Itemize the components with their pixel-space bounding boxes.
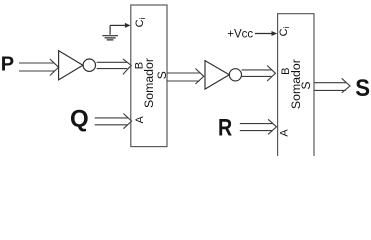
svg-text:Ci: Ci bbox=[278, 26, 291, 36]
adder block U2 (Somador 1) bbox=[131, 5, 167, 147]
wire from +Vcc to Somador2 pin Ci bbox=[255, 31, 277, 36]
svg-text:P: P bbox=[1, 54, 14, 76]
svg-text:A: A bbox=[134, 115, 146, 123]
svg-text:+Vcc: +Vcc bbox=[227, 28, 253, 40]
bus arrow from Q to Somador1 pin A bbox=[95, 114, 132, 129]
bus from Somador1 pin S to inverter U3 bbox=[167, 69, 204, 85]
svg-text:R: R bbox=[218, 114, 232, 141]
inverter U3 bbox=[205, 61, 241, 90]
inverter U1 bbox=[59, 51, 96, 80]
bus arrow from U3 to Somador2 pin B bbox=[242, 66, 276, 82]
bus arrow from U1 to Somador1 pin B bbox=[97, 59, 132, 75]
svg-text:Ci: Ci bbox=[134, 17, 147, 27]
bus arrow from Somador2 pin S to output S bbox=[314, 78, 350, 93]
svg-text:Somador: Somador bbox=[142, 58, 156, 108]
wire from ground to Somador1 pin Ci bbox=[110, 23, 131, 28]
bus arrow from R to Somador2 pin A bbox=[240, 119, 277, 134]
svg-text:S: S bbox=[355, 75, 370, 102]
svg-text:S: S bbox=[299, 81, 313, 89]
adder block U4 (Somador 2) bbox=[278, 14, 314, 156]
bus arrow from P to inverter U1 bbox=[19, 59, 59, 76]
svg-text:S: S bbox=[155, 71, 169, 79]
svg-text:Q: Q bbox=[70, 106, 89, 133]
svg-text:A: A bbox=[279, 129, 291, 137]
ground bbox=[102, 25, 118, 40]
